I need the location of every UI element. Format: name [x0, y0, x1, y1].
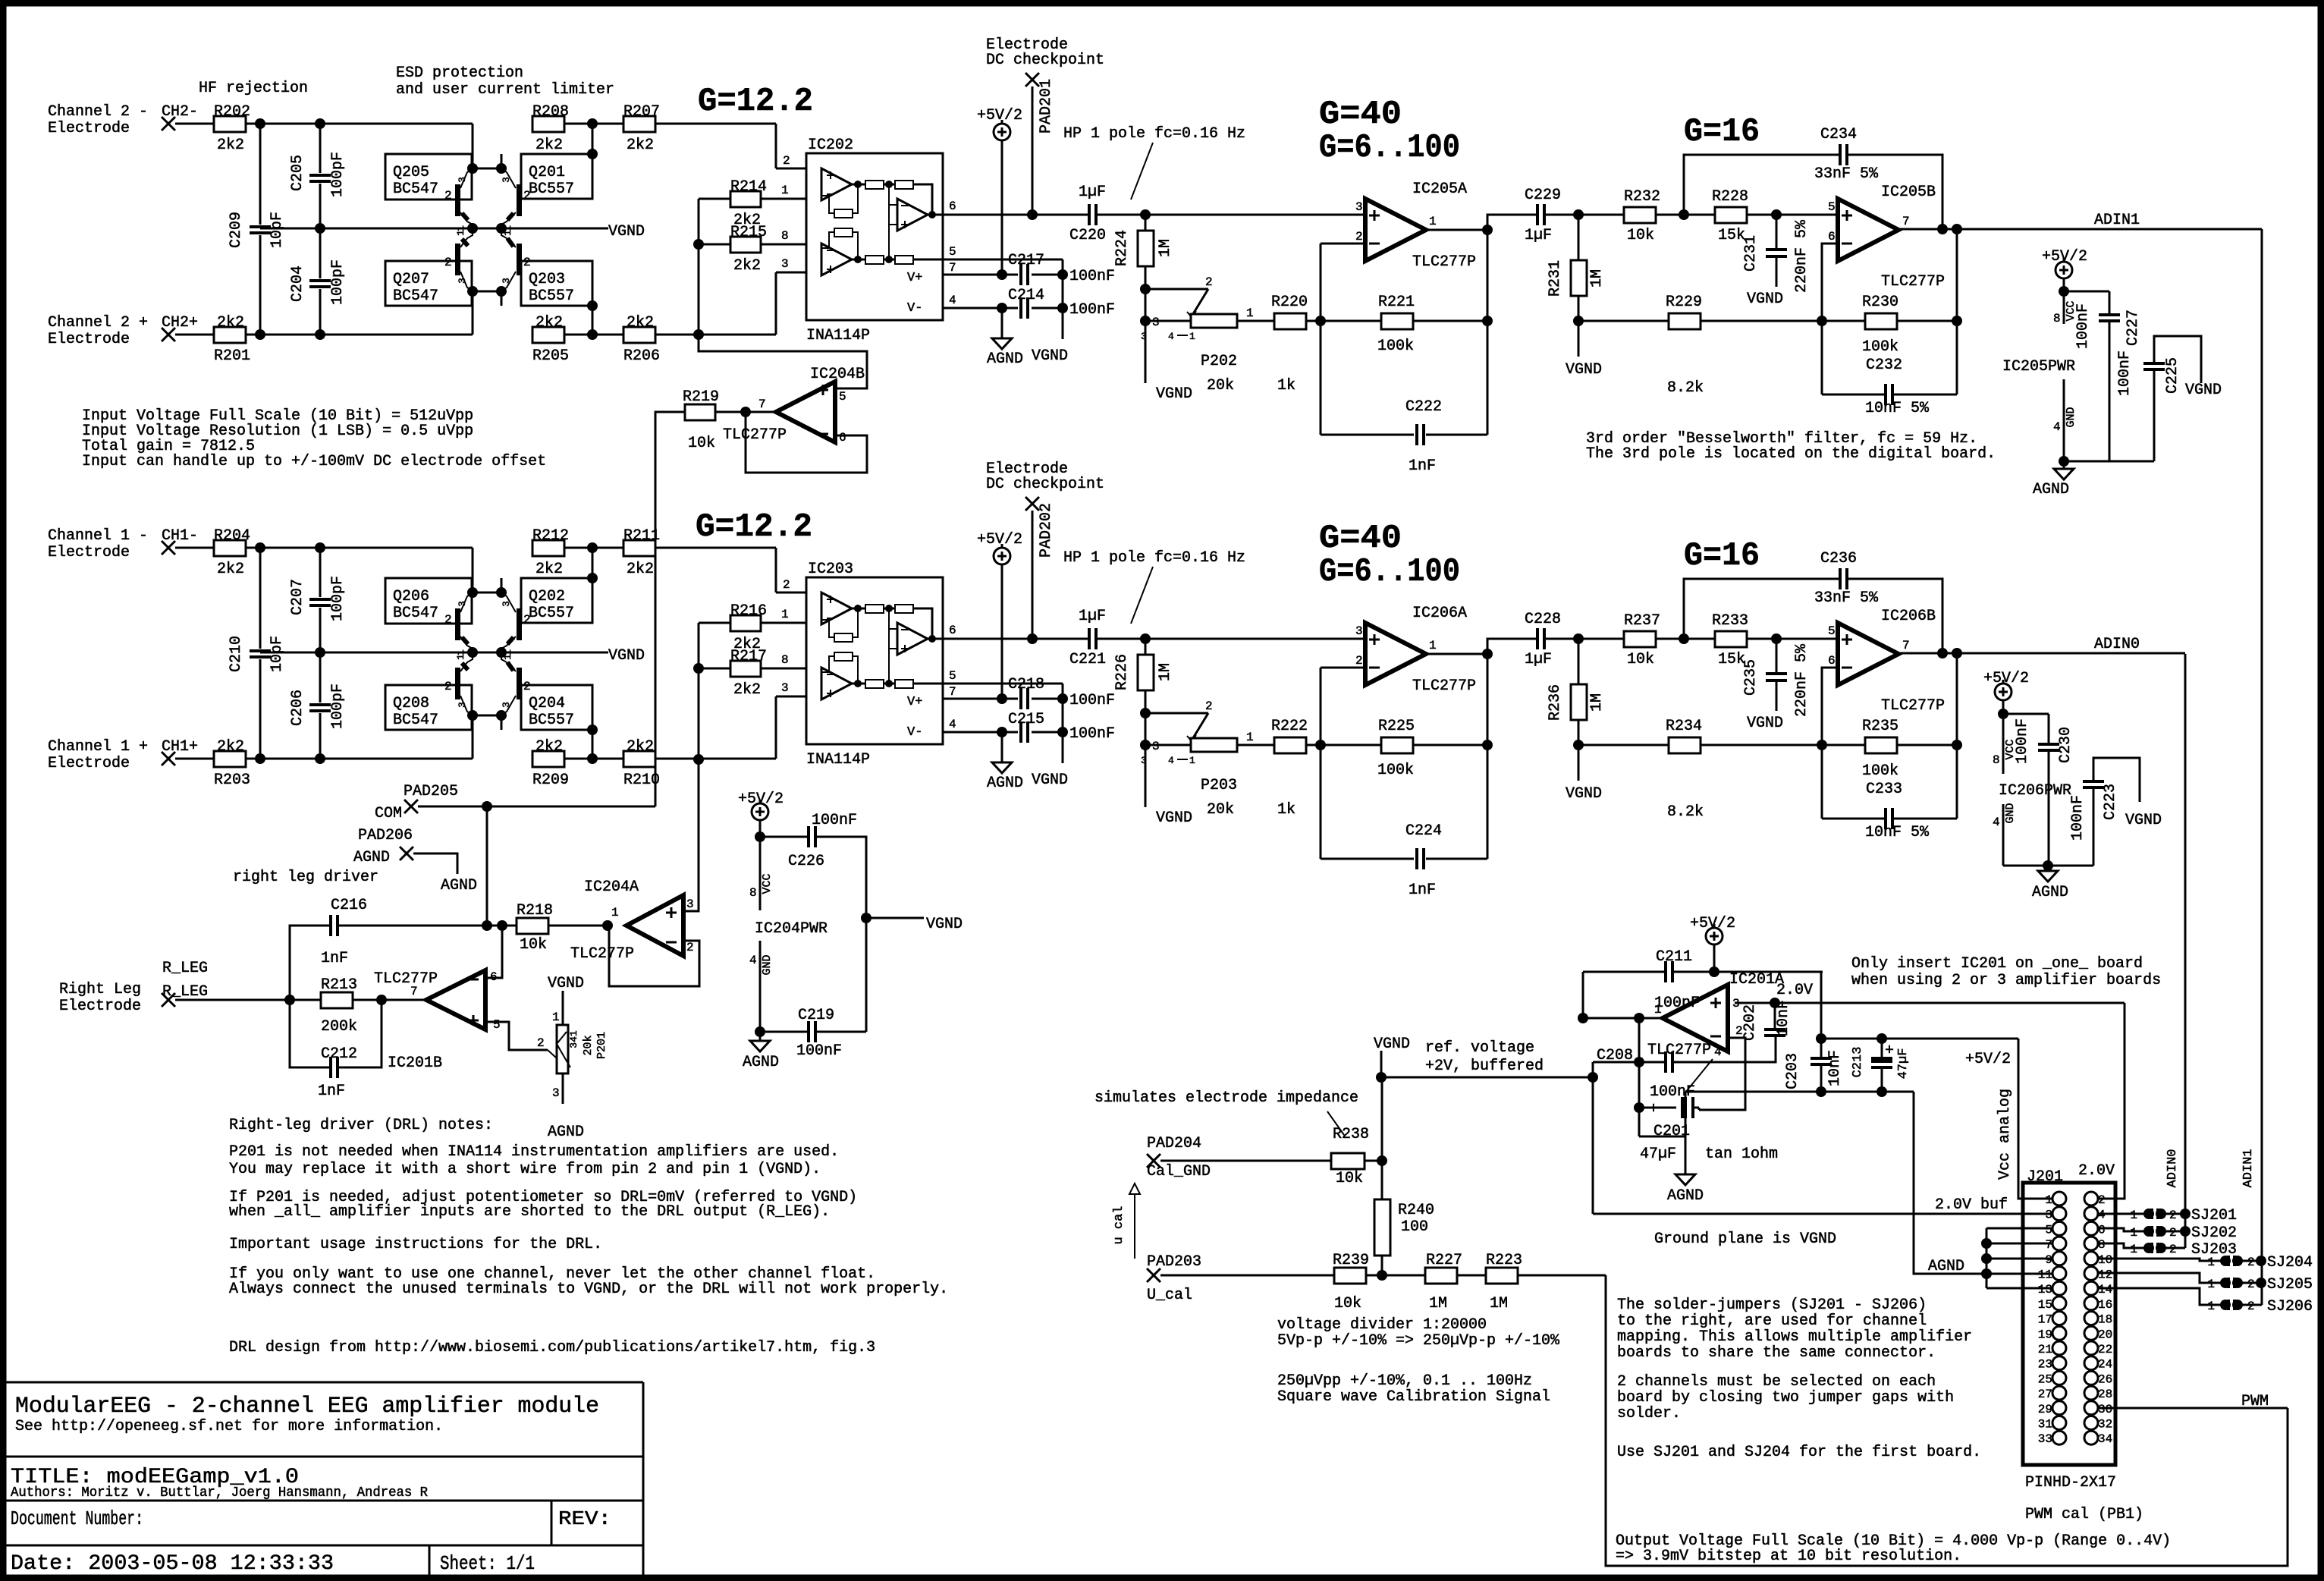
svg-text:TLC277P: TLC277P [1881, 273, 1945, 291]
svg-text:PAD202: PAD202 [1038, 503, 1055, 558]
svg-text:AGND: AGND [2032, 884, 2068, 901]
svg-text:1: 1 [2130, 1243, 2137, 1256]
svg-text:R203: R203 [214, 772, 250, 789]
svg-text:2: 2 [1355, 230, 1363, 244]
transistor Q202 BC557 [521, 578, 592, 623]
svg-text:CH2-: CH2- [162, 103, 198, 121]
VGND wire [260, 228, 608, 230]
wire Vcc analog to J201 pin1 [2018, 1039, 2052, 1199]
svg-text:Q203: Q203 [529, 271, 565, 288]
svg-text:1: 1 [455, 654, 466, 660]
svg-text:1: 1 [781, 184, 789, 197]
svg-text:VGND: VGND [1032, 772, 1068, 789]
op-amp IC204A TLC277P [627, 895, 683, 956]
pad PAD202 [1025, 497, 1039, 511]
op-amp IC206A TLC277P [1365, 623, 1426, 685]
svg-text:IC204A: IC204A [584, 879, 639, 896]
svg-text:SJ201: SJ201 [2191, 1207, 2237, 1224]
svg-text:1M: 1M [1157, 663, 1174, 681]
svg-text:31: 31 [2038, 1418, 2052, 1432]
resistor R231 1M [1578, 215, 1580, 260]
wire ADIN1 vertical [2261, 229, 2263, 1305]
transistor Q205 BC547 [385, 154, 472, 200]
svg-text:SJ206: SJ206 [2267, 1298, 2313, 1315]
svg-text:10pF: 10pF [269, 212, 286, 248]
svg-text:AGND: AGND [987, 350, 1023, 368]
svg-text:2k2: 2k2 [627, 137, 654, 154]
svg-text:BC547: BC547 [393, 605, 438, 622]
svg-text:You may replace it with a shor: You may replace it with a short wire fro… [229, 1161, 821, 1178]
wire inverting input [1321, 667, 1365, 669]
svg-text:100nF: 100nF [1069, 725, 1115, 743]
svg-text:6: 6 [1828, 654, 1836, 668]
wire to INA pin3 [775, 696, 777, 759]
capacitor C202 10nF [1774, 1003, 1776, 1029]
svg-text:Right Leg: Right Leg [59, 981, 141, 998]
transistor Q207 BC547 [385, 261, 472, 306]
pin 13 / pin 14 [2052, 1281, 2066, 1295]
capacitor C212 1nF [290, 1000, 331, 1067]
svg-text:Right-leg driver (DRL) notes:: Right-leg driver (DRL) notes: [229, 1117, 493, 1134]
wire Vcc analog row [1821, 1038, 2018, 1040]
capacitor C231 220nF 5% [1776, 215, 1778, 250]
svg-text:10: 10 [2098, 1253, 2112, 1267]
svg-text:IC201B: IC201B [388, 1055, 442, 1072]
svg-text:1: 1 [552, 1011, 560, 1024]
svg-text:AGND: AGND [548, 1124, 584, 1141]
svg-text:5: 5 [1828, 200, 1836, 214]
pin 17 / pin 18 [2052, 1312, 2066, 1325]
solder jumper SJ203 [2098, 1243, 2144, 1248]
svg-text:19: 19 [2038, 1328, 2052, 1341]
svg-text:7: 7 [2045, 1238, 2052, 1252]
svg-text:DRL design from http://www.bio: DRL design from http://www.biosemi.com/p… [229, 1339, 875, 1356]
resistor R236 1M [1578, 639, 1580, 684]
svg-text:100nF: 100nF [1654, 995, 1700, 1012]
svg-text:R235: R235 [1862, 718, 1898, 735]
svg-text:P203: P203 [1201, 777, 1237, 794]
capacitor C211 100nF [1582, 972, 1584, 1018]
svg-text:3: 3 [1141, 755, 1147, 766]
svg-text:HP 1 pole fc=0.16 Hz: HP 1 pole fc=0.16 Hz [1063, 125, 1245, 143]
svg-text:34: 34 [2098, 1432, 2112, 1446]
svg-text:8: 8 [781, 653, 789, 667]
svg-text:C204: C204 [289, 266, 306, 302]
svg-text:AGND: AGND [441, 877, 477, 894]
svg-text:SJ204: SJ204 [2267, 1254, 2313, 1271]
svg-text:3: 3 [457, 702, 468, 708]
svg-text:C221: C221 [1069, 651, 1106, 668]
capacitor C228 1uF [1487, 638, 1537, 640]
svg-text:4: 4 [1168, 331, 1174, 342]
svg-text:23: 23 [2038, 1358, 2052, 1372]
svg-text:Input can handle up to +/-100m: Input can handle up to +/-100mV DC elect… [82, 453, 546, 470]
wire pin6 to C216 node [485, 926, 502, 978]
pin 31 / pin 32 [2052, 1416, 2066, 1430]
svg-text:VGND: VGND [926, 916, 963, 933]
wire COM to DRL node [486, 806, 488, 926]
svg-text:32: 32 [2098, 1418, 2112, 1432]
annotation u cal arrow [1129, 1183, 1140, 1194]
svg-text:2: 2 [1355, 654, 1363, 668]
svg-text:24: 24 [2098, 1358, 2112, 1372]
wire to INA pin2 [775, 548, 777, 592]
svg-text:3: 3 [1355, 624, 1363, 638]
svg-text:VGND: VGND [1156, 809, 1192, 827]
svg-text:SJ205: SJ205 [2267, 1276, 2313, 1293]
transistor Q208 BC547 [385, 685, 472, 730]
capacitor C236 33nF 5% [1684, 579, 1840, 639]
svg-text:1µF: 1µF [1525, 227, 1552, 244]
op-amp IC204B TLC277P [776, 382, 835, 442]
svg-text:ADIN0: ADIN0 [2165, 1149, 2180, 1187]
capacitor C207 100pF [319, 548, 322, 597]
svg-text:5: 5 [949, 245, 956, 259]
svg-text:10k: 10k [688, 435, 715, 452]
wire to INA pin2 [775, 124, 777, 168]
svg-text:7: 7 [1902, 639, 1910, 652]
wire inverting input [1822, 668, 1838, 745]
svg-text:20k: 20k [582, 1035, 595, 1055]
svg-text:R231: R231 [1547, 260, 1564, 297]
svg-text:29: 29 [2038, 1403, 2052, 1416]
resistor R234 8.2k [1578, 744, 1669, 746]
svg-text:2: 2 [523, 256, 531, 269]
svg-text:4: 4 [949, 294, 956, 307]
svg-text:ADIN0: ADIN0 [2094, 636, 2140, 653]
svg-text:4: 4 [1993, 816, 2000, 829]
svg-text:when _all_ amplifier inputs ar: when _all_ amplifier inputs are shorted … [229, 1203, 830, 1221]
svg-text:DC checkpoint: DC checkpoint [986, 52, 1104, 69]
svg-text:Only insert IC201 on _one_ boa: Only insert IC201 on _one_ board [1851, 955, 2143, 973]
svg-text:R201: R201 [214, 347, 250, 365]
transistor Q204 BC557 [521, 685, 592, 730]
svg-text:GND: GND [2004, 803, 2017, 823]
svg-text:VGND: VGND [608, 223, 645, 240]
svg-text:4: 4 [2098, 1209, 2106, 1222]
svg-text:8.2k: 8.2k [1667, 379, 1704, 397]
svg-text:3: 3 [1152, 740, 1160, 753]
svg-text:G=16: G=16 [1684, 537, 1760, 575]
svg-text:10k: 10k [1627, 651, 1654, 668]
svg-text:C211: C211 [1656, 948, 1692, 966]
svg-text:1: 1 [2207, 1300, 2215, 1313]
svg-text:15k: 15k [1718, 651, 1745, 668]
wire 2.0V output row [1735, 1002, 2125, 1004]
svg-text:+5V/2: +5V/2 [738, 790, 784, 808]
svg-text:7: 7 [758, 398, 766, 411]
capacitor C234 33nF 5% [1684, 155, 1840, 215]
svg-text:R224: R224 [1113, 230, 1131, 266]
svg-text:3: 3 [1152, 316, 1160, 329]
svg-text:V-: V- [907, 725, 922, 740]
svg-text:G=40: G=40 [1319, 520, 1402, 558]
svg-text:Channel 2 -: Channel 2 - [48, 103, 148, 121]
pin 25 / pin 26 [2052, 1371, 2066, 1385]
svg-text:2: 2 [523, 680, 531, 693]
svg-text:TLC277P: TLC277P [723, 426, 787, 444]
svg-text:10k: 10k [1627, 227, 1654, 244]
svg-text:u cal: u cal [1112, 1205, 1126, 1244]
svg-text:8: 8 [2053, 312, 2061, 325]
svg-text:VGND: VGND [1566, 785, 1602, 803]
svg-text:2: 2 [537, 1036, 545, 1050]
svg-text:4: 4 [949, 718, 956, 731]
svg-text:Authors: Moritz v. Buttlar, Jo: Authors: Moritz v. Buttlar, Joerg Hansma… [11, 1485, 428, 1501]
capacitor C233 10nF 5% [1821, 745, 1823, 819]
svg-text:C203: C203 [1784, 1053, 1801, 1089]
svg-text:IC205B: IC205B [1881, 184, 1936, 201]
svg-text:+5V/2: +5V/2 [1965, 1051, 2011, 1068]
svg-text:when using 2 or 3 amplifier bo: when using 2 or 3 amplifier boards [1851, 972, 2161, 989]
capacitor C210 10pF [259, 548, 262, 649]
svg-text:100nF: 100nF [2116, 350, 2134, 396]
wire 2.0Vbuf loop [1592, 1062, 1594, 1214]
svg-text:2k2: 2k2 [535, 561, 563, 578]
svg-text:1nF: 1nF [1409, 457, 1436, 475]
svg-text:mapping. This allows multiple: mapping. This allows multiple amplifier [1617, 1328, 1972, 1346]
svg-text:ref. voltage: ref. voltage [1425, 1039, 1534, 1057]
ground AGND at IC201A [1685, 1092, 1687, 1174]
svg-text:2: 2 [783, 578, 790, 592]
svg-text:10nF: 10nF [1775, 1000, 1792, 1036]
svg-text:7: 7 [410, 985, 418, 998]
svg-text:V+: V+ [907, 695, 922, 709]
svg-text:G=12.2: G=12.2 [696, 508, 812, 546]
wire AGND to odd pins 5-13 [1986, 1228, 1988, 1288]
svg-text:2: 2 [1205, 699, 1213, 713]
svg-text:TLC277P: TLC277P [1881, 697, 1945, 715]
svg-text:100: 100 [1401, 1218, 1428, 1236]
svg-text:V-: V- [907, 301, 922, 316]
wire R219 to COM net [655, 412, 685, 806]
ground AGND symbol [992, 762, 1012, 773]
svg-text:22: 22 [2098, 1343, 2112, 1356]
svg-text:C205: C205 [289, 155, 306, 191]
svg-text:3: 3 [2045, 1209, 2052, 1222]
wire pin6 feedback [746, 412, 867, 473]
svg-text:G=16: G=16 [1684, 113, 1760, 151]
wire pin2 feedback [609, 926, 699, 986]
wire pin6 output [943, 214, 1032, 216]
pin 23 / pin 24 [2052, 1356, 2066, 1370]
svg-text:VGND: VGND [1566, 361, 1602, 379]
svg-text:3: 3 [457, 601, 468, 607]
svg-text:IC205PWR: IC205PWR [2002, 358, 2075, 376]
pin 33 / pin 34 [2052, 1431, 2066, 1444]
svg-text:15k: 15k [1718, 227, 1745, 244]
svg-text:17: 17 [2038, 1313, 2052, 1327]
svg-text:IC204PWR: IC204PWR [755, 920, 828, 938]
wire 2.0Vbuf row to pin3 [1593, 1213, 2052, 1215]
svg-text:BC547: BC547 [393, 181, 438, 198]
svg-text:and user current limiter: and user current limiter [396, 81, 614, 99]
svg-text:C224: C224 [1405, 822, 1442, 840]
svg-text:V+: V+ [907, 271, 922, 285]
op-amp IC201A TLC277P [1663, 985, 1728, 1051]
pin 21 / pin 22 [2052, 1341, 2066, 1355]
svg-text:2: 2 [444, 613, 452, 627]
svg-text:ModularEEG - 2-channel EEG amp: ModularEEG - 2-channel EEG amplifier mod… [15, 1394, 599, 1419]
capacitor C232 10nF 5% [1821, 321, 1823, 394]
svg-text:R232: R232 [1624, 188, 1660, 206]
svg-text:R238: R238 [1333, 1126, 1369, 1143]
capacitor C221 1uF [1032, 638, 1089, 640]
svg-text:C228: C228 [1525, 611, 1561, 628]
svg-text:P201 is not needed when INA114: P201 is not needed when INA114 instrumen… [229, 1143, 839, 1161]
wire to INA pin3 [775, 272, 777, 335]
wire gain node ch1 to IC204A pin3 [698, 668, 700, 759]
svg-text:VGND: VGND [608, 647, 645, 665]
ground AGND symbol [992, 338, 1012, 349]
wire pin3 to CH1+ sense [683, 759, 699, 911]
svg-text:Ground plane is VGND: Ground plane is VGND [1654, 1231, 1836, 1248]
svg-text:TLC277P: TLC277P [1412, 253, 1476, 271]
wire pin5 ref to VGND [943, 259, 1063, 261]
svg-text:33nF 5%: 33nF 5% [1814, 165, 1879, 183]
svg-text:Channel 1 -: Channel 1 - [48, 527, 148, 545]
svg-text:1nF: 1nF [1409, 882, 1436, 899]
potentiometer P202 20k [1145, 288, 1208, 291]
svg-text:tan 1ohm: tan 1ohm [1705, 1146, 1778, 1163]
svg-text:1: 1 [502, 654, 513, 660]
svg-text:100nF: 100nF [2069, 795, 2087, 841]
svg-text:COM: COM [375, 805, 402, 822]
svg-text:3: 3 [457, 177, 468, 183]
svg-text:AGND: AGND [743, 1054, 779, 1071]
svg-text:1: 1 [1246, 306, 1254, 320]
svg-text:HF rejection: HF rejection [199, 80, 308, 97]
svg-text:GND: GND [2065, 407, 2077, 427]
svg-text:C232: C232 [1866, 357, 1902, 374]
svg-text:VGND: VGND [1747, 291, 1783, 308]
svg-text:C229: C229 [1525, 187, 1561, 204]
svg-text:10k: 10k [520, 936, 547, 954]
svg-text:2k2: 2k2 [535, 137, 563, 154]
svg-text:3: 3 [781, 681, 789, 695]
svg-text:AGND: AGND [2033, 481, 2069, 498]
svg-text:C216: C216 [331, 897, 367, 914]
svg-text:13: 13 [2038, 1283, 2052, 1297]
op-amp IC203 INA114P [806, 577, 943, 744]
capacitor C225 100nF [2154, 336, 2201, 383]
svg-text:1nF: 1nF [318, 1083, 345, 1100]
svg-text:30: 30 [2098, 1403, 2112, 1416]
svg-text:2.0V buf: 2.0V buf [1935, 1196, 2008, 1214]
svg-text:25: 25 [2038, 1372, 2052, 1386]
pin 1 / pin 2 [2052, 1192, 2066, 1205]
wire pin5/VGND column [1062, 684, 1064, 763]
svg-text:1: 1 [2130, 1209, 2137, 1222]
svg-text:Q201: Q201 [529, 164, 565, 181]
svg-text:2.0V: 2.0V [2078, 1162, 2115, 1180]
svg-text:12: 12 [2098, 1268, 2112, 1282]
svg-text:10k: 10k [1334, 1295, 1361, 1312]
svg-text:+5V/2: +5V/2 [1690, 915, 1735, 932]
capacitor C201 47uF tantalum [1634, 1102, 1644, 1113]
svg-text:1: 1 [2045, 1193, 2052, 1207]
svg-text:100pF: 100pF [329, 576, 347, 621]
svg-text:VGND: VGND [2185, 382, 2222, 399]
svg-text:Sheet: 1/1: Sheet: 1/1 [440, 1552, 535, 1575]
svg-text:C230: C230 [2057, 727, 2074, 763]
title block frame [6, 1381, 643, 1384]
svg-text:5: 5 [493, 1018, 501, 1032]
svg-text:2: 2 [2169, 1226, 2177, 1240]
svg-text:R205: R205 [532, 347, 569, 365]
svg-text:C235: C235 [1742, 659, 1760, 696]
svg-text:1: 1 [1189, 331, 1195, 342]
svg-text:C222: C222 [1405, 398, 1442, 416]
svg-text:=> 3.9mV bitstep at 10 bit res: => 3.9mV bitstep at 10 bit resolution. [1616, 1548, 1961, 1565]
svg-text:C234: C234 [1820, 126, 1857, 143]
svg-text:2: 2 [2098, 1193, 2106, 1207]
svg-text:2k2: 2k2 [217, 137, 244, 154]
svg-text:BC557: BC557 [529, 605, 574, 622]
svg-text:C209: C209 [228, 212, 245, 248]
svg-text:SJ202: SJ202 [2191, 1224, 2237, 1242]
svg-text:4: 4 [2053, 420, 2061, 434]
svg-text:1µF: 1µF [1079, 184, 1106, 201]
svg-text:1M: 1M [1157, 239, 1174, 257]
svg-text:Electrode: Electrode [59, 998, 141, 1015]
svg-text:200k: 200k [321, 1018, 357, 1036]
svg-text:AGND: AGND [1928, 1258, 1964, 1275]
svg-text:IC202: IC202 [808, 137, 853, 154]
svg-text:VGND: VGND [548, 975, 584, 992]
pin 5 / pin 6 [2052, 1221, 2066, 1235]
svg-text:G=6..100: G=6..100 [1319, 129, 1460, 167]
svg-text:2: 2 [2169, 1209, 2177, 1222]
capacitor C205 100pF [319, 124, 322, 173]
svg-text:+2V, buffered: +2V, buffered [1425, 1058, 1544, 1075]
svg-text:DC checkpoint: DC checkpoint [986, 476, 1104, 493]
svg-text:1M: 1M [1588, 269, 1606, 288]
wire output [1426, 229, 1487, 231]
svg-text:2: 2 [2247, 1278, 2255, 1291]
svg-text:100pF: 100pF [329, 684, 347, 729]
svg-text:R_LEG: R_LEG [162, 960, 208, 977]
svg-text:3: 3 [501, 278, 512, 284]
svg-text:250µVpp +/-10%, 0.1 .. 100Hz: 250µVpp +/-10%, 0.1 .. 100Hz [1277, 1372, 1532, 1390]
wire pin5 to P201 wiper [485, 1022, 548, 1050]
wire ADIN1 end [2261, 1304, 2262, 1306]
wire inverting input [1822, 244, 1838, 321]
svg-text:Channel 2 +: Channel 2 + [48, 314, 148, 332]
svg-text:ADIN1: ADIN1 [2094, 212, 2140, 229]
svg-text:C231: C231 [1742, 235, 1760, 272]
svg-text:right leg driver: right leg driver [233, 869, 378, 886]
svg-text:5: 5 [1828, 624, 1836, 638]
svg-text:Q204: Q204 [529, 695, 565, 712]
svg-text:20k: 20k [1207, 377, 1234, 394]
svg-text:C236: C236 [1820, 550, 1857, 567]
svg-text:1µF: 1µF [1079, 608, 1106, 625]
svg-text:6: 6 [1828, 230, 1836, 244]
svg-text:100nF: 100nF [1069, 301, 1115, 319]
svg-text:Q205: Q205 [393, 164, 429, 181]
svg-text:1: 1 [455, 230, 466, 236]
svg-text:IC204B: IC204B [810, 366, 865, 383]
capacitor C208 100nF [1593, 1061, 1639, 1064]
svg-text:8: 8 [749, 886, 757, 900]
capacitor C227 100nF [2064, 291, 2109, 293]
svg-text:6: 6 [949, 200, 956, 213]
pad PAD201 [1025, 73, 1039, 86]
svg-text:100nF: 100nF [796, 1042, 842, 1060]
svg-text:5: 5 [949, 669, 956, 683]
svg-text:10pF: 10pF [269, 636, 286, 672]
